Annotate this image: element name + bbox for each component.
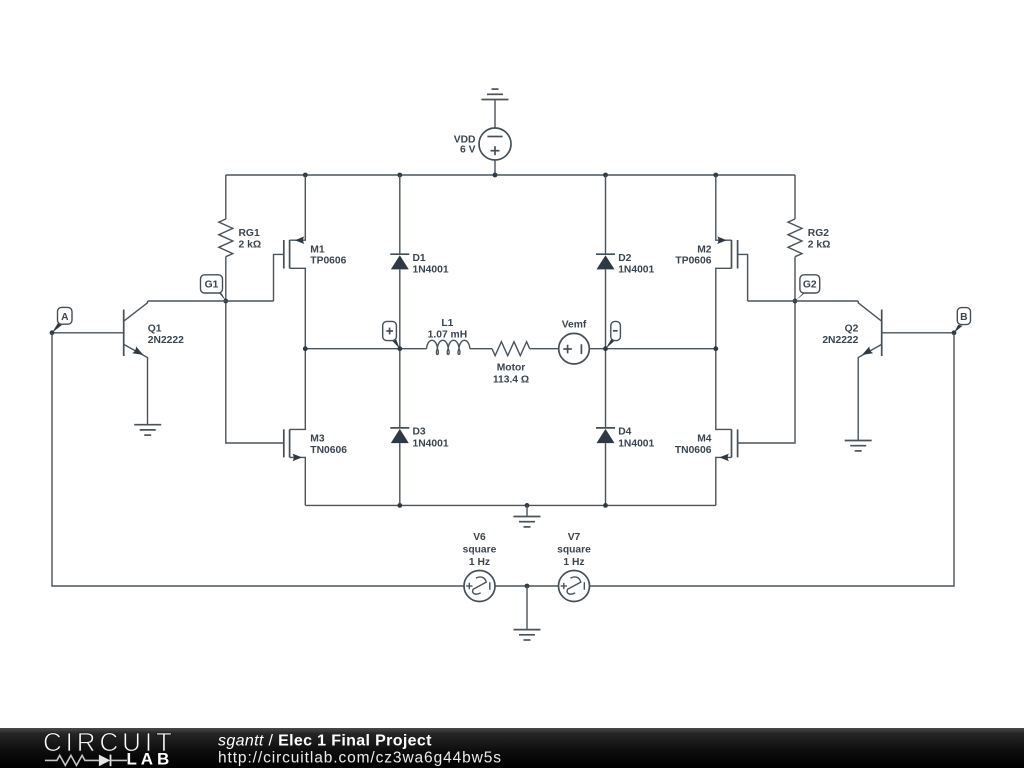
junction dots on bottom bus xyxy=(397,503,607,508)
MOSFET M3 TN0606 (NMOS) xyxy=(284,349,347,506)
node G1 xyxy=(201,275,229,304)
svg-text:2 kΩ: 2 kΩ xyxy=(239,240,262,251)
svg-text:M2: M2 xyxy=(697,244,712,255)
voltage source Vemf xyxy=(559,319,590,364)
svg-text:M3: M3 xyxy=(310,434,325,445)
CircuitLab logo resistor-diode glyph xyxy=(45,755,127,767)
wire V6 to V7 xyxy=(495,585,559,587)
svg-text:1N4001: 1N4001 xyxy=(618,438,654,449)
svg-text:Vemf: Vemf xyxy=(562,319,587,330)
wire Motor to Vemf xyxy=(530,348,559,350)
wire bottom bus xyxy=(305,504,716,506)
svg-text:TN0606: TN0606 xyxy=(675,445,712,456)
wire VDD to top bus xyxy=(494,160,496,175)
svg-text:2 kΩ: 2 kΩ xyxy=(808,240,831,251)
svg-text:1.07 mH: 1.07 mH xyxy=(428,330,468,341)
node + xyxy=(383,321,402,351)
wire Q1 base from node A xyxy=(52,332,124,334)
wire middle row left xyxy=(305,348,426,350)
wire Q2 collector to G2 xyxy=(748,300,859,302)
svg-text:RG1: RG1 xyxy=(239,228,260,239)
voltage source VDD 6 V xyxy=(454,128,511,160)
wire Q2 base from node B xyxy=(882,332,954,334)
svg-text:1 Hz: 1 Hz xyxy=(469,557,490,568)
svg-text:square: square xyxy=(557,545,591,556)
svg-text:Q2: Q2 xyxy=(845,324,859,335)
svg-text:2N2222: 2N2222 xyxy=(822,335,858,346)
wire node A down and along bottom to V6 xyxy=(52,333,464,586)
svg-text:TP0606: TP0606 xyxy=(310,256,346,267)
wire G1 column down to M3 gate xyxy=(226,301,284,443)
svg-text:1N4001: 1N4001 xyxy=(413,265,449,276)
svg-text:RG2: RG2 xyxy=(808,228,829,239)
svg-text:http://circuitlab.com/cz3wa6g4: http://circuitlab.com/cz3wa6g44bw5s xyxy=(218,750,502,767)
svg-text:113.4 Ω: 113.4 Ω xyxy=(493,375,529,386)
ground (V6/V7 common) xyxy=(514,586,541,640)
transistor Q1 2N2222 (NPN) xyxy=(124,301,184,425)
voltage source V6 square 1 Hz xyxy=(463,532,497,601)
junction dot middle-right rail xyxy=(713,346,718,351)
MOSFET M2 TP0606 (PMOS, mirrored) xyxy=(675,175,747,349)
svg-text:square: square xyxy=(463,545,497,556)
svg-text:A: A xyxy=(61,312,69,323)
svg-text:1 Hz: 1 Hz xyxy=(563,557,584,568)
svg-text:M4: M4 xyxy=(697,434,712,445)
node G2 xyxy=(793,275,820,304)
wire top bus xyxy=(226,174,795,176)
wire Q1 collector to G1 xyxy=(148,300,274,302)
svg-text:6 V: 6 V xyxy=(460,145,476,156)
svg-text:TN0606: TN0606 xyxy=(310,445,347,456)
svg-text:V6: V6 xyxy=(473,532,486,543)
wire Vemf to node - and M2 rail xyxy=(589,348,716,350)
svg-text:2N2222: 2N2222 xyxy=(148,335,184,346)
svg-text:TP0606: TP0606 xyxy=(675,256,711,267)
svg-text:G1: G1 xyxy=(205,280,219,291)
diode D1 1N4001 xyxy=(390,175,449,349)
ground (inverted, above VDD) xyxy=(482,89,509,128)
MOSFET M4 TN0606 (NMOS, mirrored) xyxy=(675,349,738,506)
svg-text:D4: D4 xyxy=(618,427,631,438)
ground (Q1 emitter) xyxy=(134,425,161,435)
transistor Q2 2N2222 (NPN, mirrored) xyxy=(822,301,881,441)
resistor Motor 113.4 Ohm xyxy=(492,342,530,386)
voltage source V7 square 1 Hz xyxy=(557,532,591,601)
svg-text:Q1: Q1 xyxy=(148,324,162,335)
diode D3 1N4001 xyxy=(390,349,449,506)
svg-text:1N4001: 1N4001 xyxy=(618,265,654,276)
junction dot middle-left rail xyxy=(303,346,308,351)
svg-text:Motor: Motor xyxy=(497,363,526,374)
diode D4 1N4001 xyxy=(596,349,655,506)
ground (bottom bus) xyxy=(514,505,541,527)
svg-text:L1: L1 xyxy=(441,318,453,329)
diode D2 1N4001 xyxy=(596,175,655,349)
junction dot between V6 and V7 xyxy=(525,584,530,589)
node B xyxy=(952,308,971,336)
svg-text:1N4001: 1N4001 xyxy=(413,438,449,449)
resistor RG2 2 kOhm xyxy=(788,175,830,301)
junction dots on top bus xyxy=(303,173,718,178)
wire G2 column down to M4 gate xyxy=(738,301,795,443)
node A xyxy=(50,307,72,335)
resistor RG1 2 kOhm xyxy=(219,175,261,301)
svg-text:G2: G2 xyxy=(803,280,817,291)
wire L1 to Motor xyxy=(470,348,492,350)
svg-text:LAB: LAB xyxy=(127,750,174,768)
MOSFET M1 TP0606 (PMOS) xyxy=(274,175,347,349)
wire node B down and along bottom to V7 xyxy=(590,333,955,586)
svg-text:V7: V7 xyxy=(568,532,581,543)
svg-text:D3: D3 xyxy=(413,427,426,438)
svg-text:sgantt / Elec 1 Final Project: sgantt / Elec 1 Final Project xyxy=(218,733,432,750)
svg-text:M1: M1 xyxy=(310,244,325,255)
node - xyxy=(603,321,620,351)
inductor L1 1.07 mH xyxy=(427,318,470,354)
ground (Q2 emitter) xyxy=(845,441,872,451)
svg-text:D1: D1 xyxy=(413,253,426,264)
svg-text:B: B xyxy=(960,312,967,323)
svg-text:D2: D2 xyxy=(618,253,631,264)
